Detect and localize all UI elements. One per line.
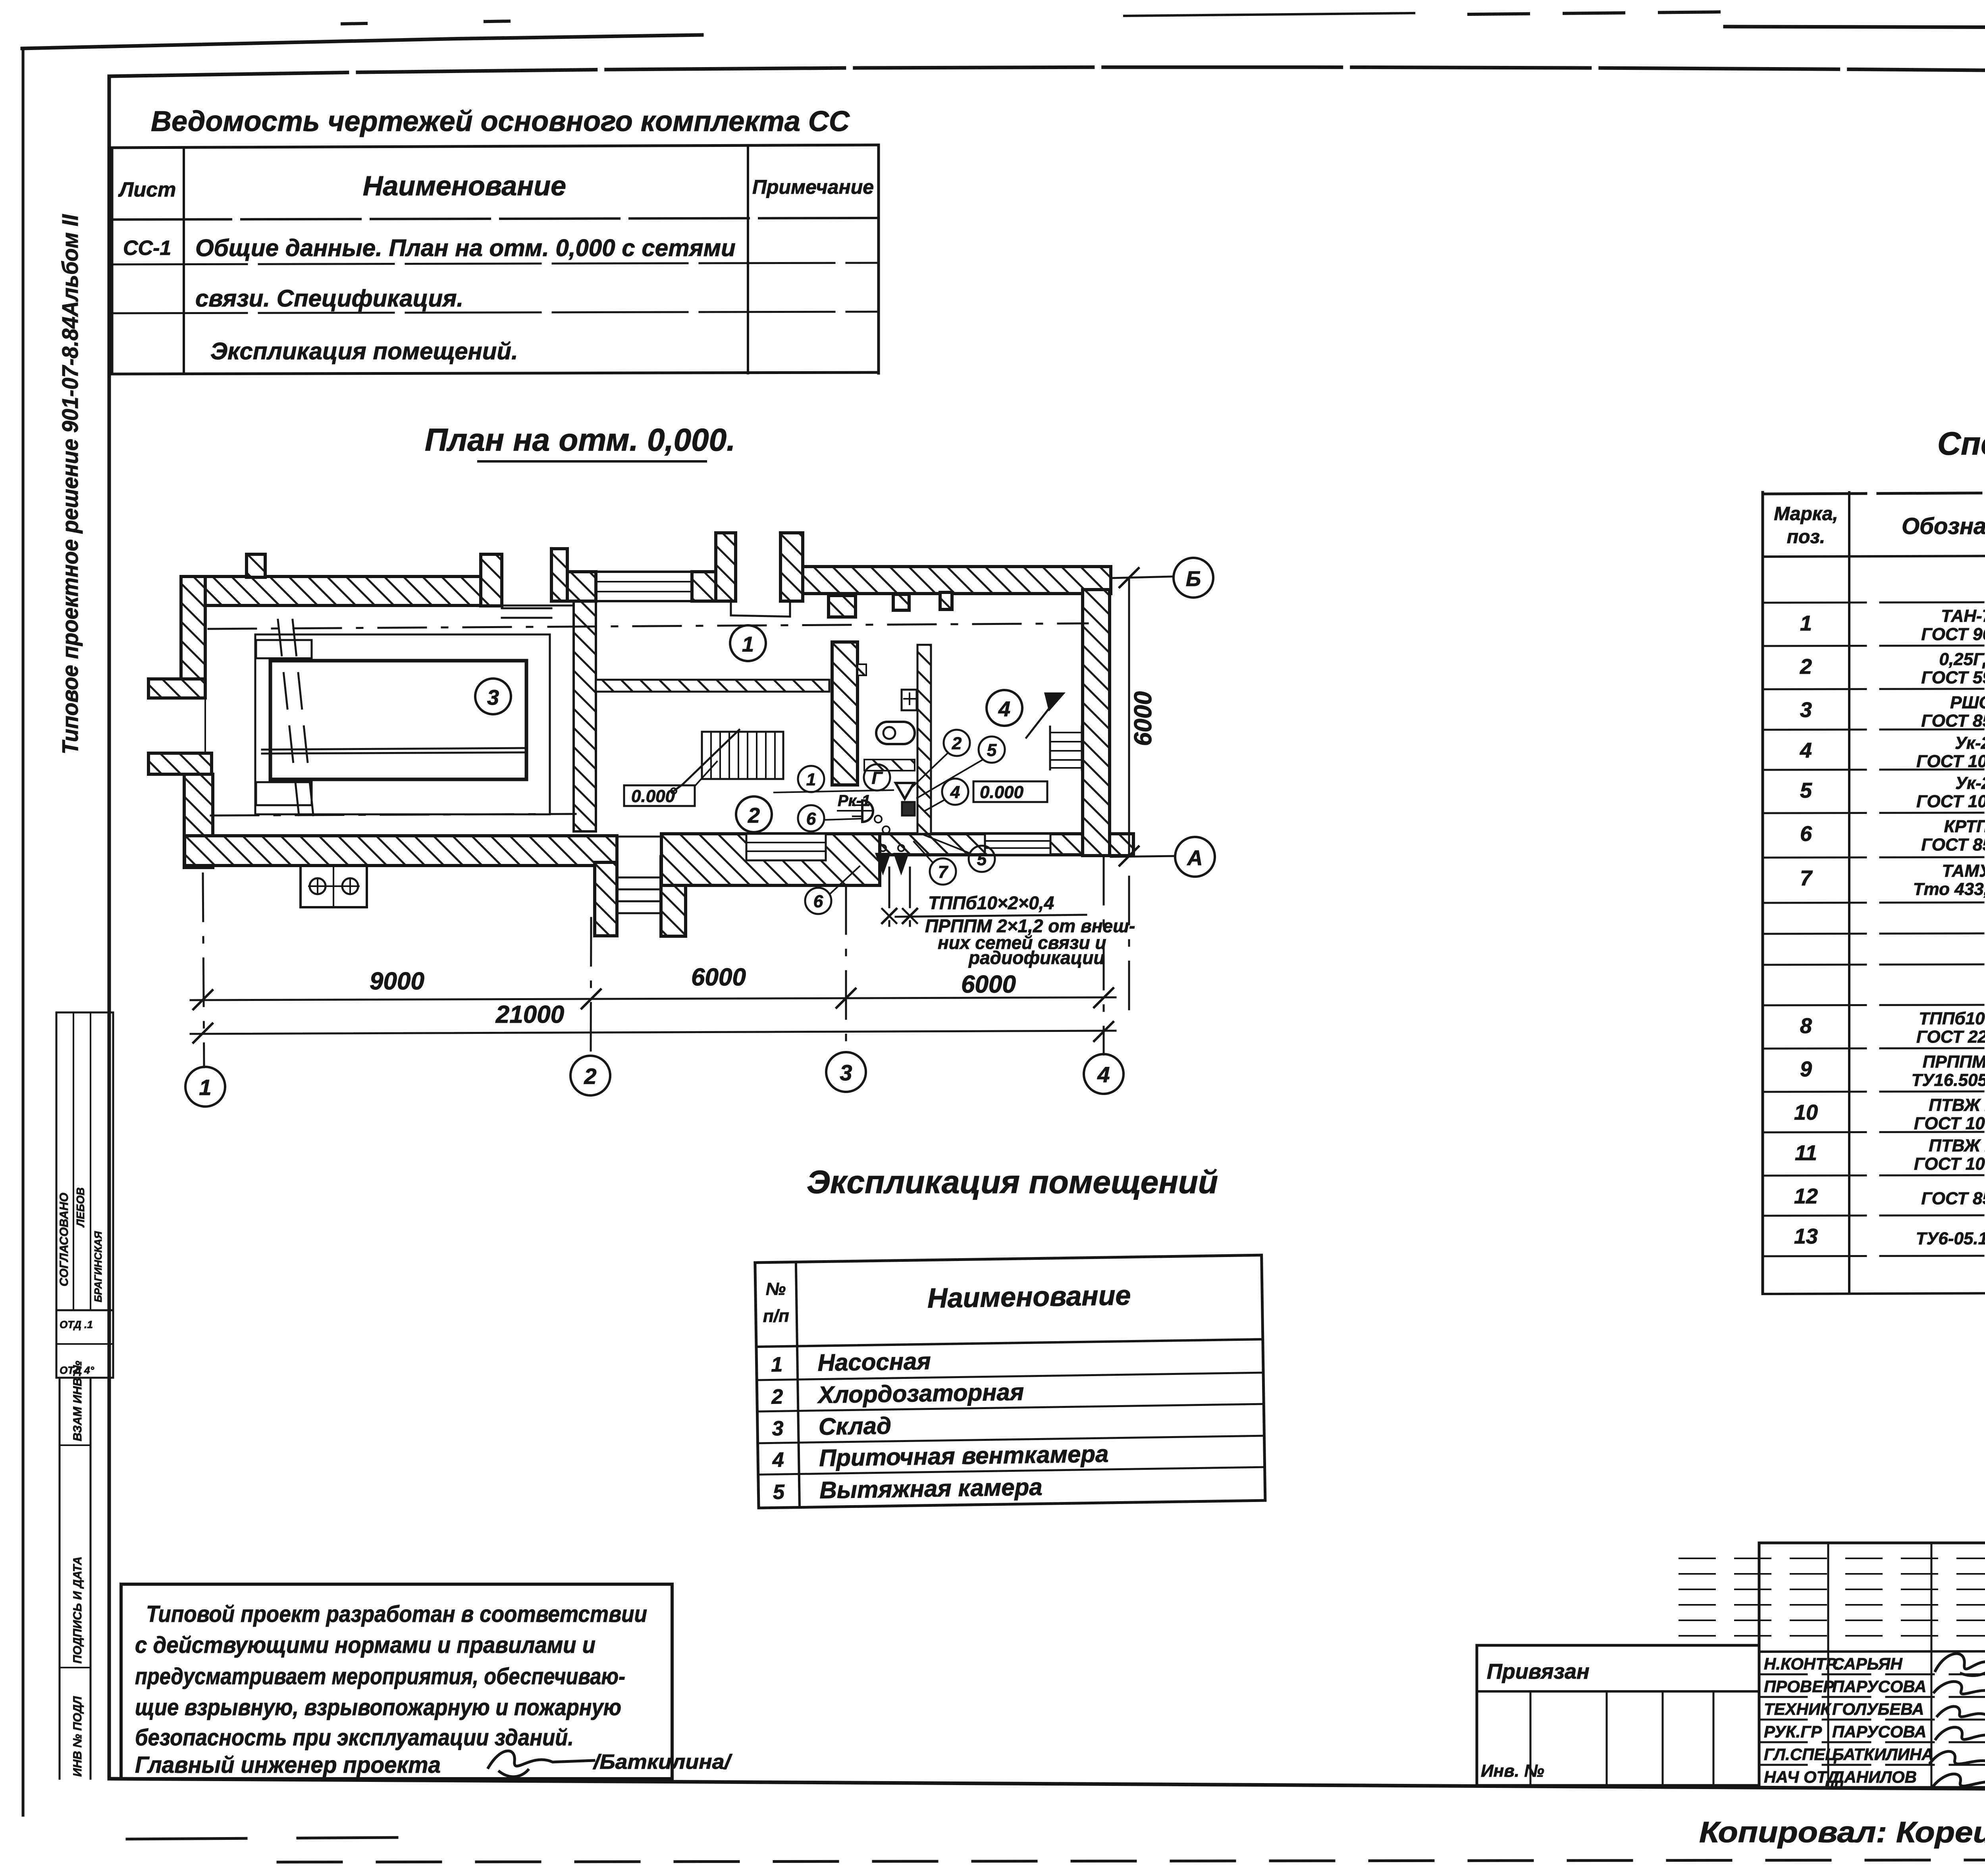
wall tab left2 — [148, 753, 212, 774]
svg-text:6: 6 — [806, 809, 816, 829]
stamp signature table grid — [1679, 1543, 1985, 1787]
svg-text:6000: 6000 — [1129, 691, 1157, 746]
callout 1 — [798, 766, 824, 792]
svg-text:0.000: 0.000 — [980, 783, 1024, 802]
svg-text:радиофикации: радиофикации — [968, 947, 1104, 968]
svg-text:5: 5 — [977, 850, 987, 869]
svg-text:Приточная венткамера: Приточная венткамера — [819, 1440, 1109, 1471]
svg-text:21000: 21000 — [495, 1001, 564, 1028]
room label 1 — [730, 625, 766, 661]
svg-text:СОГЛАСОВАНО: СОГЛАСОВАНО — [58, 1193, 71, 1286]
label Rk-1 — [838, 792, 873, 811]
left margin approval box — [56, 1012, 113, 1310]
svg-text:3: 3 — [487, 686, 499, 710]
window top w1 — [596, 572, 692, 601]
wall right-block top — [803, 567, 1111, 594]
svg-text:Лист: Лист — [118, 178, 176, 201]
tank outer — [255, 634, 550, 814]
svg-text:2: 2 — [748, 804, 760, 827]
axis line AB lower — [1128, 877, 1130, 1016]
crane dashed rails — [278, 620, 315, 830]
svg-text:Насосная: Насосная — [817, 1348, 931, 1376]
tank inner — [270, 661, 526, 779]
wall pillar mid1 — [551, 549, 567, 601]
bottom scan dashes — [127, 1837, 1985, 1862]
cable entry arrows — [875, 845, 909, 875]
door face line left wall — [204, 698, 206, 753]
svg-text:№: № — [765, 1279, 786, 1299]
svg-text:ГОСТ 5961-76: ГОСТ 5961-76 — [1921, 668, 1985, 687]
staircase room2 — [671, 730, 783, 794]
tank nozzle bottom — [256, 782, 312, 805]
svg-text:Б: Б — [1186, 567, 1201, 591]
door threshold bottom entrance — [617, 836, 661, 838]
svg-text:ТППб10×2×0,4: ТППб10×2×0,4 — [1919, 1009, 1985, 1028]
svg-text:5: 5 — [773, 1481, 785, 1504]
wall stub below top b — [940, 592, 952, 609]
svg-text:ПТВЖ 2×0,6: ПТВЖ 2×0,6 — [1929, 1136, 1985, 1155]
cable risers — [882, 868, 917, 934]
callout 5a — [917, 737, 1005, 798]
svg-text:2: 2 — [584, 1064, 596, 1089]
svg-text:ПАРУСОВА: ПАРУСОВА — [1832, 1722, 1926, 1741]
svg-text:ГОСТ 10040-75: ГОСТ 10040-75 — [1916, 792, 1985, 811]
note box — [121, 1584, 733, 1779]
svg-text:4: 4 — [998, 697, 1010, 721]
loudspeaker symbol — [853, 800, 873, 822]
vedomost table title — [151, 106, 850, 137]
svg-text:2: 2 — [952, 734, 962, 753]
level mark room2 — [624, 762, 717, 806]
axis line 4 — [1103, 857, 1105, 1055]
svg-text:Главный инженер проекта: Главный инженер проекта — [135, 1752, 441, 1778]
axis dashline upper — [208, 623, 1088, 629]
svg-text:Склад: Склад — [818, 1412, 891, 1440]
svg-text:Примечание: Примечание — [752, 176, 874, 198]
svg-text:9: 9 — [1800, 1057, 1812, 1081]
svg-text:6000: 6000 — [961, 971, 1016, 998]
svg-text:Н.КОНТР.: Н.КОНТР. — [1764, 1654, 1839, 1673]
svg-text:0.000: 0.000 — [631, 787, 675, 806]
svg-text:КРТП-10: КРТП-10 — [1944, 817, 1985, 836]
axis line 2 — [591, 918, 591, 1056]
wall stub mid — [858, 664, 866, 675]
axis bubble 4 — [1084, 1054, 1124, 1094]
tank nozzle top — [256, 640, 312, 658]
wall stub above top — [247, 554, 265, 577]
level mark room4 — [973, 781, 1047, 802]
wall stub below top mid — [829, 596, 856, 617]
spec header text — [1774, 503, 1985, 548]
wall stub bottom-right — [1110, 834, 1133, 856]
room label 3 — [475, 679, 511, 714]
wall left-block left lower — [184, 774, 213, 868]
svg-text:12: 12 — [1794, 1184, 1818, 1208]
callout line 1-G — [774, 790, 893, 792]
svg-text:ИНВ № ПОДЛ: ИНВ № ПОДЛ — [71, 1696, 84, 1777]
svg-text:А: А — [1187, 846, 1203, 870]
svg-text:Марка,: Марка, — [1774, 503, 1838, 524]
copied by — [1699, 1816, 1985, 1849]
callout 5b — [921, 834, 995, 872]
callout 4 — [925, 779, 968, 811]
svg-text:5: 5 — [987, 740, 997, 760]
svg-text:4: 4 — [772, 1448, 784, 1471]
svg-text:Хлордозаторная: Хлордозаторная — [817, 1379, 1024, 1408]
porch steps — [618, 877, 660, 913]
svg-text:Общие данные. План на отм. 0,0: Общие данные. План на отм. 0,000 с сетям… — [195, 235, 736, 261]
svg-text:ТУ6-05.1573-72: ТУ6-05.1573-72 — [1916, 1229, 1985, 1248]
svg-text:связи. Спецификация.: связи. Спецификация. — [195, 285, 463, 312]
wall room1-room2 divider — [596, 680, 829, 692]
axis bubble 2 — [570, 1056, 610, 1095]
room3 inner outline — [205, 605, 574, 836]
axis line 1 — [203, 873, 204, 1067]
wall pillar p3 — [716, 533, 736, 601]
svg-text:2: 2 — [1800, 655, 1812, 679]
cable note text — [896, 893, 1135, 968]
svg-text:8: 8 — [1800, 1014, 1812, 1038]
svg-text:СС-1: СС-1 — [123, 237, 171, 260]
svg-text:9000: 9000 — [370, 968, 424, 995]
porch wall B — [661, 857, 686, 936]
callout 7 — [914, 842, 956, 885]
axis leader B — [1111, 576, 1174, 578]
svg-text:ПТВЖ 2×1,2: ПТВЖ 2×1,2 — [1929, 1095, 1985, 1115]
svg-text:Наименование: Наименование — [363, 170, 566, 201]
dark junction box — [902, 802, 915, 816]
svg-text:Обозначение: Обозначение — [1902, 513, 1985, 539]
radio socket symbol — [876, 722, 915, 744]
explication title — [807, 1164, 1218, 1200]
svg-text:3: 3 — [840, 1060, 852, 1085]
corridor band — [864, 760, 915, 771]
svg-text:ТППб10×2×0,4: ТППб10×2×0,4 — [928, 893, 1054, 913]
explication text — [762, 1274, 1133, 1504]
svg-text:Наименование: Наименование — [927, 1280, 1131, 1314]
svg-text:Г: Г — [871, 768, 883, 788]
svg-text:ГОСТ 10040-75: ГОСТ 10040-75 — [1916, 752, 1985, 771]
room label 4 — [987, 690, 1022, 726]
svg-text:п/п: п/п — [763, 1306, 789, 1326]
svg-text:ЛЕБОВ: ЛЕБОВ — [74, 1188, 87, 1228]
wall mid vertical — [832, 642, 858, 785]
svg-text:БАТКИЛИНА: БАТКИЛИНА — [1832, 1745, 1934, 1764]
svg-text:ТАМУ-10: ТАМУ-10 — [1942, 861, 1985, 881]
axis bubble 3 — [826, 1052, 866, 1092]
svg-text:Ук-2Р: Ук-2Р — [1955, 773, 1985, 793]
wall mid-block bottom — [661, 834, 880, 885]
callout 6b — [805, 866, 860, 914]
vedomost table grid — [112, 145, 879, 374]
svg-text:Спецификация: Спецификация — [1937, 426, 1985, 462]
wall tab left1 — [148, 679, 205, 698]
svg-text:1: 1 — [199, 1075, 211, 1100]
telephone box plus — [902, 690, 917, 710]
svg-text:6: 6 — [813, 892, 823, 911]
plan title — [425, 422, 735, 461]
svg-text:ОТД .1: ОТД .1 — [60, 1319, 93, 1330]
svg-text:ГОСТ 8525-78: ГОСТ 8525-78 — [1921, 835, 1985, 854]
spec table title — [1937, 426, 1985, 462]
small circles cable — [875, 816, 890, 833]
spec rows text — [1794, 606, 1985, 1257]
svg-text:Рк-1: Рк-1 — [838, 792, 871, 810]
svg-text:Ук-2П: Ук-2П — [1955, 733, 1985, 753]
stamp signature rows — [1764, 1654, 1934, 1786]
wall right-block bottom — [880, 834, 1083, 855]
svg-text:ГОСТ 10.254-75: ГОСТ 10.254-75 — [1914, 1114, 1985, 1133]
svg-text:ТЕХНИК: ТЕХНИК — [1764, 1700, 1832, 1718]
door threshold top-left — [502, 608, 551, 618]
svg-text:ГЛ.СПЕЦ: ГЛ.СПЕЦ — [1764, 1745, 1837, 1764]
svg-text:6: 6 — [1800, 822, 1812, 846]
wall left-block top — [181, 576, 483, 605]
svg-text:1: 1 — [771, 1353, 783, 1376]
svg-text:Типовой проект разработан в: Типовой проект разработан в соответствии — [146, 1601, 647, 1627]
svg-text:0,25ГД-Ш: 0,25ГД-Ш — [1939, 650, 1985, 669]
svg-text:1: 1 — [806, 770, 816, 789]
stamp attach table — [1477, 1645, 1759, 1785]
svg-text:САРЬЯН: САРЬЯН — [1832, 1654, 1903, 1673]
axis line 3 — [845, 886, 847, 1053]
svg-text:4: 4 — [1800, 738, 1812, 762]
wall right-block right — [1083, 590, 1110, 856]
svg-text:7: 7 — [938, 862, 949, 882]
svg-text:РУК.ГР: РУК.ГР — [1764, 1722, 1822, 1741]
scan smudges top — [342, 12, 1723, 24]
svg-text:Типовое проектное решение 901-: Типовое проектное решение 901-07-8.84Аль… — [58, 214, 83, 754]
svg-text:РШО-1: РШО-1 — [1950, 693, 1985, 712]
svg-text:Экспликация помещений: Экспликация помещений — [807, 1164, 1218, 1200]
dim line 9000-6000-6000 — [191, 964, 1116, 1009]
svg-text:ГОСТ 10.254-75: ГОСТ 10.254-75 — [1914, 1154, 1985, 1174]
room label 2 — [736, 796, 772, 832]
svg-text:1: 1 — [742, 632, 754, 656]
wall pillar door left — [481, 554, 502, 606]
wall left-block right — [574, 601, 596, 831]
wall stub below top a — [893, 594, 909, 610]
svg-text:4: 4 — [950, 783, 960, 802]
axis dashline lower — [211, 814, 576, 816]
svg-text:безопасность при эксплуатаци: безопасность при эксплуатации зданий. — [135, 1725, 574, 1751]
left margin rotated title — [58, 214, 83, 754]
ladder room4 — [1026, 692, 1082, 769]
svg-text:с действующими нормами и пра: с действующими нормами и правилами и — [135, 1632, 595, 1658]
svg-text:НАЧ ОТД: НАЧ ОТД — [1764, 1768, 1839, 1786]
svg-text:щие взрывную, взрывопожарную: щие взрывную, взрывопожарную и пожарную — [135, 1695, 621, 1720]
wall mid-top connector — [567, 572, 596, 601]
svg-text:Экспликация помещений.: Экспликация помещений. — [210, 338, 518, 364]
svg-text:ГОЛУБЕВА: ГОЛУБЕВА — [1832, 1700, 1924, 1718]
axis bubble B — [1174, 558, 1213, 598]
callout 6a — [798, 805, 861, 831]
left margin inv strip — [60, 1361, 91, 1779]
svg-text:ТУ16.505.755-75: ТУ16.505.755-75 — [1912, 1070, 1985, 1090]
svg-text:5: 5 — [1800, 779, 1812, 802]
wall partition room4 — [917, 645, 931, 834]
foundation block with bolts — [301, 866, 367, 907]
svg-text:13: 13 — [1794, 1224, 1818, 1248]
svg-text:ВЗАМ ИНВ №: ВЗАМ ИНВ № — [71, 1361, 84, 1441]
svg-text:Вытяжная камера: Вытяжная камера — [819, 1473, 1043, 1503]
svg-text:ПРОВЕР: ПРОВЕР — [1764, 1677, 1835, 1696]
svg-text:План на отм. 0,000.: План на отм. 0,000. — [425, 422, 735, 457]
svg-text:Инв. №: Инв. № — [1481, 1761, 1544, 1781]
svg-text:ПОДПИСЬ И ДАТА: ПОДПИСЬ И ДАТА — [71, 1556, 84, 1664]
svg-text:предусматривает мероприятия,: предусматривает мероприятия, обеспечиваю… — [135, 1664, 625, 1689]
svg-text:ГОСТ 8559-75: ГОСТ 8559-75 — [1921, 711, 1985, 731]
axis leader A — [1111, 856, 1175, 857]
svg-text:ГОСТ 22498-77: ГОСТ 22498-77 — [1916, 1027, 1985, 1047]
svg-text:Тто 433,004.ТУ: Тто 433,004.ТУ — [1913, 879, 1985, 899]
svg-text:7: 7 — [1800, 866, 1813, 890]
callout G — [864, 764, 890, 791]
svg-text:10: 10 — [1794, 1101, 1818, 1124]
svg-text:ПРППМ 2×1,2: ПРППМ 2×1,2 — [1923, 1052, 1985, 1072]
left margin otd cells — [56, 1310, 113, 1378]
spec table grid — [1763, 491, 1985, 1294]
wall mid-top seg2 — [692, 572, 716, 601]
svg-text:ДАНИЛОВ: ДАНИЛОВ — [1831, 1768, 1917, 1786]
svg-text:4: 4 — [1097, 1062, 1110, 1087]
svg-text:Привязан: Привязан — [1487, 1660, 1590, 1683]
svg-text:ТАН-76-1: ТАН-76-1 — [1941, 606, 1985, 626]
vedomost table text — [118, 170, 874, 364]
wall pillar p4 — [781, 533, 803, 601]
svg-text:3: 3 — [772, 1417, 784, 1440]
svg-text:6000: 6000 — [691, 964, 746, 991]
explication grid — [755, 1255, 1265, 1508]
axis bubble 1 — [185, 1067, 225, 1107]
svg-text:3: 3 — [1800, 698, 1812, 722]
stamp signatures — [1930, 1654, 1985, 1787]
wall left-block bottom — [185, 836, 617, 866]
svg-text:11: 11 — [1795, 1141, 1817, 1165]
wall left-block left upper — [181, 576, 205, 679]
porch wall A — [595, 862, 617, 936]
funnel box symbol — [896, 783, 914, 799]
dim line 21000 — [191, 1001, 1116, 1043]
svg-text:ГОСТ 8509-72: ГОСТ 8509-72 — [1921, 1189, 1985, 1208]
svg-text:Копировал: Корецкая: Копировал: Корецкая — [1699, 1816, 1985, 1849]
svg-text:БРАГИНСКАЯ: БРАГИНСКАЯ — [92, 1231, 104, 1302]
svg-text:ГОСТ 9686-68: ГОСТ 9686-68 — [1921, 625, 1985, 644]
svg-text:Ведомость чертежей основного: Ведомость чертежей основного комплекта С… — [151, 106, 850, 137]
svg-text:поз.: поз. — [1787, 526, 1825, 548]
dim vertical 6000 — [1120, 568, 1157, 866]
tank divider — [262, 748, 526, 754]
svg-text:1: 1 — [1800, 611, 1812, 635]
svg-text:ПАРУСОВА: ПАРУСОВА — [1832, 1677, 1926, 1696]
door recess top-mid — [731, 601, 790, 617]
axis bubble A — [1175, 837, 1215, 877]
svg-text:/Баткилина/: /Баткилина/ — [593, 1751, 733, 1774]
callout 2 — [911, 730, 970, 788]
svg-text:2: 2 — [771, 1385, 783, 1408]
